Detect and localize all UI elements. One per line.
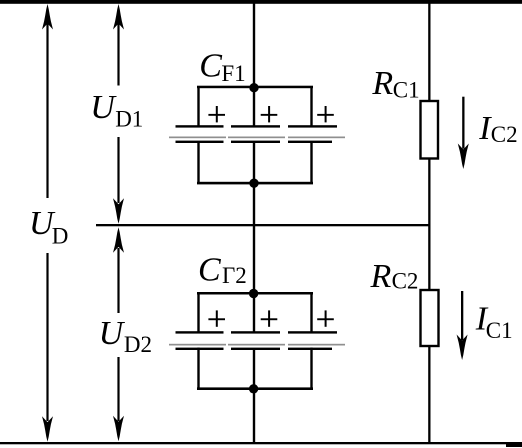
bottom-right corner mark (506, 442, 522, 447)
plus sign 2c (317, 310, 334, 326)
arrow U_D2 (double headed) (113, 227, 124, 441)
arrow U_D (double headed, left) (42, 4, 53, 442)
capacitor 1b plates (228, 125, 285, 143)
bottom rail (0, 442, 522, 444)
svg-text:C1: C1 (393, 78, 420, 103)
svg-text:Γ2: Γ2 (222, 263, 247, 288)
plus sign 2a (208, 310, 225, 326)
plus sign 2b (261, 310, 278, 326)
top rail (0, 0, 522, 4)
wire: right column (428, 3, 430, 443)
C_F1 bank: bottom bus (197, 182, 313, 185)
svg-text:R: R (370, 258, 392, 295)
svg-text:F1: F1 (221, 61, 245, 86)
wire: main capacitor column lower (253, 349, 255, 444)
node dot bottom of C_F2 (249, 384, 258, 393)
capacitor 1a plates (169, 125, 226, 143)
svg-text:D2: D2 (124, 332, 152, 357)
svg-text:R: R (371, 65, 393, 102)
svg-text:C1: C1 (486, 318, 513, 343)
C_F2 right leg (310, 293, 312, 334)
svg-text:C2: C2 (392, 269, 419, 294)
resistor R_C2 (421, 290, 439, 346)
C_F2 left leg (197, 293, 199, 334)
plus sign 1b (261, 106, 278, 122)
arrow I_C2 (current, down) (458, 97, 469, 169)
plus sign 1c (317, 106, 334, 122)
C_F1 bank: top bus (197, 86, 313, 89)
svg-text:C: C (198, 252, 221, 289)
capacitor 2b plates (228, 331, 285, 350)
capacitor 2c plates (288, 331, 345, 350)
wire: main capacitor column upper (253, 3, 255, 127)
wire: mid node line (96, 224, 430, 226)
wire: main capacitor column middle (253, 141, 255, 333)
arrow U_D1 (double headed) (113, 4, 124, 224)
svg-text:D1: D1 (115, 107, 143, 132)
capacitor 1c plates (288, 125, 345, 143)
node dot bottom of C_F1 (249, 179, 258, 188)
node dot top of C_F2 (249, 289, 258, 298)
C_F2 bank: top bus (197, 292, 313, 295)
svg-text:C: C (199, 48, 222, 85)
svg-text:C2: C2 (491, 122, 518, 147)
svg-text:D: D (52, 224, 69, 249)
C_F1 left leg (197, 86, 199, 127)
plus sign 1a (208, 106, 225, 122)
svg-text:U: U (99, 315, 126, 352)
node dot top of C_F1 (249, 83, 258, 92)
C_F1 right leg (310, 86, 312, 127)
resistor R_C1 (421, 101, 439, 159)
svg-text:U: U (90, 89, 117, 126)
arrow I_C1 (current, down) (457, 291, 468, 360)
C_F2 bank: bottom bus (197, 387, 313, 390)
capacitor 2a plates (169, 331, 226, 350)
